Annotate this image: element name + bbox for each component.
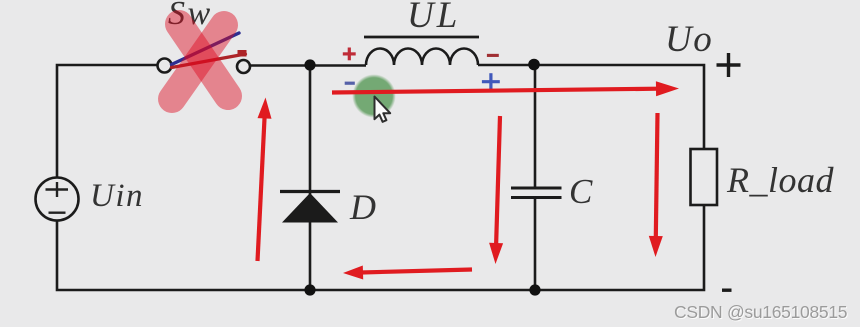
svg-text:D: D [349,187,376,227]
svg-text:Uin: Uin [90,178,144,214]
svg-text:CSDN @su165108515: CSDN @su165108515 [674,302,847,322]
svg-text:Uo: Uo [665,19,713,60]
svg-text:UL: UL [407,0,460,36]
svg-text:C: C [569,172,593,211]
svg-text:R_load: R_load [726,160,834,200]
